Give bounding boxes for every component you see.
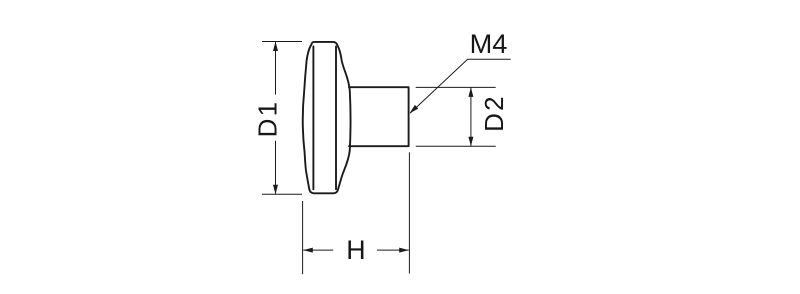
svg-text:D1: D1 [252,100,282,138]
svg-text:H: H [346,235,365,265]
svg-text:M4: M4 [470,28,508,59]
svg-text:D2: D2 [479,94,509,132]
